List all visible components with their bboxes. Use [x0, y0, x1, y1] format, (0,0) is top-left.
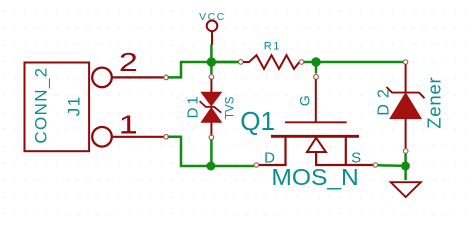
gate pin end circle [314, 75, 319, 80]
junction bottom-left node [206, 162, 215, 171]
drain horizontal [259, 164, 287, 166]
svg-text:Q1: Q1 [240, 106, 275, 136]
junction VCC node [207, 57, 216, 66]
pin 1 end circle [164, 135, 169, 140]
power symbol VCC [207, 21, 218, 45]
pin 2 end circle [164, 75, 169, 80]
wire gate stub [315, 62, 318, 74]
drain vertical [284, 138, 286, 167]
drain pin end circle [254, 163, 258, 167]
wire top bus to D2 [321, 61, 404, 64]
pin 2 wire [113, 76, 164, 78]
wire R1 left to junction [216, 61, 239, 64]
pin 1 circle [92, 127, 112, 147]
wire VCC stub [210, 45, 213, 63]
source vertical [345, 138, 347, 167]
pin 2 circle [92, 68, 112, 88]
source pin line [346, 164, 373, 166]
wire pin1 to bottom bus [168, 137, 255, 166]
body diode stem [315, 152, 317, 165]
wire D2 bottom stub [404, 153, 407, 162]
resistor R1 [239, 55, 304, 69]
source pin end circle [373, 163, 377, 167]
pin 1 number base bar [122, 131, 136, 133]
wire source to ground node [378, 164, 401, 167]
wire ground stub [404, 166, 407, 180]
wire D1 top stub [210, 62, 213, 74]
junction ground node [401, 161, 410, 170]
svg-text:Zener: Zener [423, 76, 444, 128]
svg-text:VCC: VCC [199, 11, 226, 23]
gate bar [285, 121, 347, 123]
svg-text:TVS: TVS [224, 96, 236, 119]
svg-text:D1: D1 [184, 93, 201, 118]
wire pin2 to top bus [168, 62, 239, 77]
transistor Q1 [254, 122, 377, 167]
diode D1 TVS [200, 75, 222, 140]
svg-text:G: G [297, 95, 313, 106]
svg-text:D2: D2 [375, 83, 392, 115]
pin 1 wire [113, 136, 164, 138]
svg-text:1: 1 [119, 109, 138, 139]
connector J1 body [25, 63, 90, 152]
svg-text:R1: R1 [264, 41, 281, 53]
wire R1 right to gate junction [304, 61, 312, 64]
svg-text:2: 2 [119, 47, 138, 77]
junction gate node [311, 57, 320, 66]
ground symbol [391, 182, 421, 197]
svg-text:CONN_2: CONN_2 [32, 67, 51, 144]
body diode arrow [307, 138, 326, 152]
channel bar [271, 135, 359, 138]
svg-text:J1: J1 [64, 95, 83, 116]
source horizontal [315, 164, 346, 166]
gate pin line [315, 79, 317, 122]
wire D1 bottom stub [210, 140, 213, 166]
svg-text:MOS_N: MOS_N [271, 164, 358, 190]
diode D2 zener [387, 60, 425, 154]
